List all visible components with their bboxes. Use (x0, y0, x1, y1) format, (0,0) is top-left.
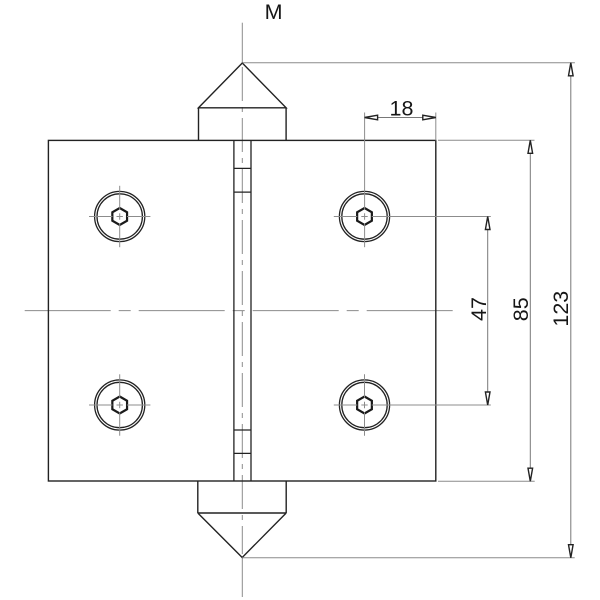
dimension 85 (438, 140, 535, 481)
svg-text:18: 18 (390, 97, 414, 121)
vertical centerline of hinge pin (241, 23, 243, 597)
svg-text:85: 85 (509, 297, 533, 321)
dimension 18 (365, 97, 436, 141)
svg-text:123: 123 (549, 291, 573, 327)
hinge pin barrel lines (234, 140, 251, 481)
horizontal centerline of plate (25, 310, 459, 312)
svg-text:47: 47 (467, 297, 491, 321)
knuckle joint ticks (234, 167, 251, 169)
screw hole bottom-right (334, 374, 491, 435)
svg-text:M: M (265, 0, 283, 24)
top finial cone (199, 63, 287, 140)
hinge plate outline (48, 140, 435, 481)
dimension 123 (242, 63, 575, 558)
bottom finial cone (198, 481, 286, 558)
screw hole top-right (334, 113, 491, 248)
screw hole bottom-left (89, 374, 150, 435)
screw hole top-left (89, 186, 150, 247)
dimension 47 (467, 217, 491, 406)
